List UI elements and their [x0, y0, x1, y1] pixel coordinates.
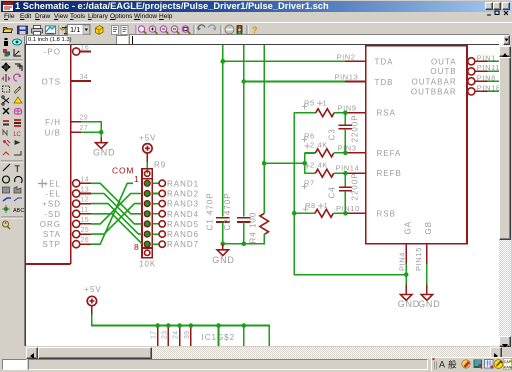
pin TDB — [345, 78, 393, 87]
svg-text:TDB: TDB — [375, 78, 394, 87]
vertical scrollbar — [499, 45, 511, 347]
pin name OTS — [42, 78, 61, 87]
canvas — [25, 44, 499, 346]
svg-text:STP: STP — [42, 240, 61, 249]
svg-text:RAND1: RAND1 — [167, 179, 199, 188]
svg-text:23: 23 — [161, 331, 168, 339]
title text — [15, 1, 329, 11]
svg-text:14: 14 — [81, 176, 89, 183]
wire GB to GND — [426, 264, 428, 285]
svg-text:R9: R9 — [154, 161, 166, 170]
bus / net — [3, 198, 11, 201]
capacitor C4 — [328, 172, 360, 213]
pin F/H (29) — [71, 121, 81, 123]
pin OTS (34) — [71, 80, 91, 82]
svg-text:A: A — [439, 360, 445, 370]
pin IC1G$2 23 — [161, 323, 170, 346]
R9 pad 7 — [144, 241, 150, 247]
pin GA — [404, 221, 413, 264]
wire pad7 to RAND7 stub — [152, 241, 165, 247]
svg-text:25: 25 — [81, 227, 89, 234]
CAM icon — [46, 26, 56, 34]
junction B-TDB — [242, 79, 247, 84]
separator — [194, 25, 195, 35]
pin number 29 — [80, 115, 88, 122]
svg-text:27: 27 — [80, 125, 88, 132]
svg-text:RAND4: RAND4 — [167, 210, 199, 219]
wire PIN8 — [477, 73, 499, 82]
display / mark — [3, 49, 10, 57]
name / value — [3, 130, 7, 135]
svg-text:RAND3: RAND3 — [167, 200, 199, 209]
wire +5V to R9 COM — [146, 162, 148, 173]
supply +5V (bottom) — [84, 285, 101, 314]
svg-text:1C: 1C — [13, 132, 21, 138]
horizontal scrollbar — [26, 347, 502, 359]
ground GND2 — [212, 244, 234, 265]
svg-text:RAND5: RAND5 — [167, 220, 199, 229]
app icon — [3, 2, 13, 11]
wire +SD to R9 pad6 — [91, 204, 142, 235]
junction REFA node — [343, 151, 348, 156]
net label RAND2 — [167, 190, 199, 199]
move / copy — [2, 63, 10, 71]
svg-text:34: 34 — [80, 74, 88, 81]
wire pad5 to RAND5 stub — [152, 221, 165, 227]
pin REFB — [345, 169, 401, 178]
svg-text:ABC: ABC — [13, 208, 24, 214]
net label RAND4 — [167, 210, 199, 219]
wire gnd bus — [223, 222, 264, 244]
svg-text:PIN1: PIN1 — [477, 53, 496, 62]
junction R8 left — [292, 211, 297, 216]
svg-text:-SD: -SD — [44, 210, 61, 219]
net label RAND6 — [167, 230, 199, 239]
junction gnd bus C2 — [242, 242, 247, 247]
svg-text:+5V: +5V — [139, 134, 156, 143]
svg-text:PIN4: PIN4 — [397, 252, 406, 271]
net label PIN3 — [338, 144, 357, 153]
svg-text:1: 1 — [134, 174, 140, 184]
toolbar — [0, 22, 512, 36]
svg-text:F/H: F/H — [45, 118, 61, 127]
pin OUTA (PIN1) — [431, 57, 488, 66]
gateswap icons — [112, 26, 119, 35]
net label RAND7 — [167, 240, 199, 249]
junction RSB node — [343, 211, 348, 216]
capacitor C3 — [328, 113, 360, 153]
svg-text:RAND7: RAND7 — [167, 240, 199, 249]
resistor network R9 body — [142, 169, 152, 258]
pin +SD (12) — [42, 197, 91, 209]
R9 pad 4 — [144, 211, 150, 217]
svg-text:RAND2: RAND2 — [167, 190, 199, 199]
pin name U/B — [45, 129, 61, 138]
net label COM origin cross — [38, 179, 46, 187]
wire PIN1 — [477, 53, 499, 62]
wire -SD to R9 pad7 — [91, 214, 142, 244]
svg-text:ORG: ORG — [40, 220, 61, 229]
wire net A vertical — [222, 45, 224, 217]
R9 pad 2 — [144, 191, 150, 197]
wire TDB horizontal — [244, 81, 345, 83]
net label RAND3 — [167, 200, 199, 209]
pin name F/H — [45, 118, 61, 127]
separator — [1, 217, 23, 218]
split / invoke — [3, 152, 9, 155]
svg-text:-PO: -PO — [44, 48, 61, 57]
wire TDA horizontal — [223, 60, 345, 62]
R9 pad 6 — [144, 231, 150, 237]
IC1 left device body right edge — [26, 45, 71, 264]
junction C feed — [262, 161, 267, 166]
R9 value 10K — [139, 260, 156, 269]
pin RSA — [345, 109, 396, 118]
svg-text:-EL: -EL — [46, 190, 61, 199]
junction GA-PIN4 — [404, 272, 409, 277]
svg-text:39: 39 — [184, 331, 191, 339]
svg-text:T: T — [15, 164, 21, 174]
svg-text:11: 11 — [81, 207, 89, 214]
wire net B vertical — [243, 45, 245, 217]
junction gnd bus C1 — [221, 242, 226, 247]
separator — [59, 25, 60, 35]
svg-text:PIN2: PIN2 — [337, 52, 356, 61]
svg-text:PIN3: PIN3 — [338, 144, 357, 153]
svg-text:RSB: RSB — [377, 209, 396, 218]
save icon — [18, 26, 28, 34]
svg-text:PIN13: PIN13 — [335, 72, 359, 81]
wire net C vertical — [263, 45, 265, 214]
svg-text:U/B: U/B — [45, 129, 61, 138]
traffic light — [237, 25, 243, 35]
svg-text:24: 24 — [173, 331, 180, 339]
svg-text:26: 26 — [81, 237, 89, 244]
svg-text:GND: GND — [418, 299, 440, 309]
window buttons — [485, 2, 493, 10]
command combo — [129, 34, 510, 46]
svg-text:PIN11: PIN11 — [477, 63, 499, 72]
print icon — [32, 26, 43, 36]
coords box — [26, 35, 69, 46]
use/library icon — [61, 26, 72, 35]
R9 pad 5 — [144, 221, 150, 227]
pin IC1G$2 24 — [173, 323, 182, 346]
svg-text:PIN8: PIN8 — [477, 73, 496, 82]
capacitor C2 — [223, 192, 250, 230]
pin TDA — [345, 57, 393, 66]
wire ORG to R9 pad2 — [91, 194, 142, 224]
wire C to REF feed — [264, 162, 305, 164]
net label PIN15 — [414, 247, 423, 271]
smash / miter — [3, 140, 10, 146]
zoom icons x5 — [138, 26, 146, 34]
status bar — [0, 359, 512, 372]
stop sign (disabled) — [225, 25, 234, 34]
wire +EL to R9 pad4 — [91, 183, 142, 214]
group / change — [3, 86, 10, 92]
wire pad6 to RAND6 stub — [152, 231, 165, 237]
wire V1 R5-R8 — [294, 113, 406, 275]
net label PIN10 — [336, 204, 360, 213]
resistor R7 — [302, 160, 346, 189]
svg-text:GA: GA — [404, 221, 413, 235]
wire down to GND1 — [100, 132, 102, 142]
wire pad2 to RAND2 stub — [152, 190, 165, 196]
svg-text:GND: GND — [93, 147, 115, 157]
separator — [1, 60, 23, 61]
pin -SD (11) — [44, 207, 91, 219]
svg-text:般: 般 — [448, 360, 457, 370]
net label RAND5 — [167, 220, 199, 229]
R9 COM pad — [145, 171, 150, 176]
pin number 34 — [80, 74, 88, 81]
net label PIN14 — [336, 163, 360, 172]
wire pad1 to RAND1 stub — [152, 180, 165, 186]
svg-text:2200P: 2200P — [351, 114, 360, 142]
pin name -PO — [44, 48, 61, 57]
supply +5V (top, at R9) — [139, 134, 156, 163]
svg-text:C2 470P: C2 470P — [223, 192, 232, 230]
junction RSA node — [343, 110, 348, 115]
svg-text:OUTBBAR: OUTBBAR — [411, 87, 457, 96]
command row — [0, 35, 512, 45]
ground GND4 — [418, 285, 440, 310]
capacitor C1 — [206, 192, 230, 230]
svg-text:STA: STA — [43, 230, 61, 239]
svg-text:KANA: KANA — [504, 366, 512, 370]
resistor R5 — [294, 99, 345, 117]
rect / polygon — [3, 187, 10, 193]
net label PIN2 — [337, 52, 356, 61]
svg-text:1: 1 — [323, 99, 328, 108]
svg-text:GND: GND — [398, 299, 420, 309]
junction F/H-U/B — [99, 130, 104, 135]
svg-text:29: 29 — [80, 115, 88, 122]
svg-text:17: 17 — [151, 331, 158, 339]
IC2 body — [366, 46, 467, 244]
pin STA (25) — [43, 227, 91, 239]
wire +5V bottom bus — [92, 314, 269, 346]
R9 label — [154, 161, 166, 170]
svg-text:+5V: +5V — [84, 285, 101, 294]
sheet combo 1/1 — [68, 25, 91, 36]
junction A-TDA — [221, 59, 226, 64]
svg-text:13: 13 — [81, 187, 89, 194]
svg-text:PIN15: PIN15 — [414, 247, 423, 271]
left tool palette — [0, 36, 25, 346]
pin REFA — [345, 149, 401, 158]
wire U/B to junction — [81, 131, 101, 133]
net label PIN9 — [338, 104, 357, 113]
label pin 8 — [134, 242, 140, 252]
pin -PO (16) — [73, 48, 91, 55]
open folder icon — [3, 28, 13, 33]
svg-text:C3: C3 — [328, 128, 337, 140]
label pin 1 — [134, 174, 140, 184]
svg-text:+EL: +EL — [44, 179, 61, 188]
pin IC1G$2 39 — [184, 323, 193, 346]
use library icon — [96, 26, 104, 35]
wire PIN18 — [477, 83, 501, 92]
cut / paste — [2, 96, 9, 105]
wire STA to R9 pad3 — [91, 204, 142, 235]
mirror / rotate — [2, 74, 11, 82]
resistor R4 — [249, 212, 269, 244]
junction feed-V2 — [302, 161, 307, 166]
svg-text:REFA: REFA — [377, 149, 402, 158]
pin -EL (13) — [46, 187, 91, 199]
circle / arc — [3, 176, 10, 183]
svg-text:PIN9: PIN9 — [338, 104, 357, 113]
erc — [3, 221, 11, 229]
separator — [1, 161, 23, 162]
svg-text:2200P: 2200P — [351, 172, 360, 200]
wire pad3 to RAND3 stub — [152, 200, 165, 206]
junction REFB node — [343, 171, 348, 176]
pin number 16 — [81, 45, 89, 52]
part label IC1G$2 — [202, 333, 236, 342]
svg-text:C4: C4 — [328, 186, 337, 198]
svg-text:2.4K: 2.4K — [310, 160, 328, 169]
svg-text:C1 470P: C1 470P — [206, 192, 215, 230]
wire branch 2 down — [242, 323, 247, 346]
svg-text:PIN18: PIN18 — [477, 83, 499, 92]
svg-text:OTS: OTS — [42, 78, 61, 87]
separator — [247, 25, 248, 35]
svg-text:15: 15 — [81, 217, 89, 224]
pin IC1G$2 17 — [151, 323, 160, 346]
svg-text:12: 12 — [81, 197, 89, 204]
pinswap / gateswap — [3, 120, 9, 126]
R9 bottom pad — [145, 250, 150, 255]
net label PIN4 — [397, 252, 406, 271]
label COM — [112, 166, 134, 176]
net label RAND1 — [167, 179, 199, 188]
svg-text:10K: 10K — [139, 260, 156, 269]
resistor R6 — [302, 132, 346, 157]
separator — [136, 25, 137, 35]
wire GA to GND — [405, 264, 407, 285]
wire PIN11 — [477, 63, 500, 72]
undo redo — [197, 25, 205, 31]
svg-text:COM: COM — [112, 166, 134, 176]
info / show — [4, 38, 8, 46]
svg-text:2.4K: 2.4K — [310, 140, 328, 149]
svg-text:1/1: 1/1 — [70, 25, 80, 34]
pin GB — [424, 221, 433, 264]
svg-text:PIN14: PIN14 — [336, 163, 360, 172]
R9 pad 3 — [144, 201, 150, 207]
pin ORG (15) — [40, 217, 91, 229]
svg-text:PIN10: PIN10 — [336, 204, 360, 213]
ground GND1 — [93, 143, 115, 158]
svg-text:OUTA: OUTA — [431, 57, 457, 66]
wire -EL to R9 pad5 — [91, 194, 142, 224]
net label PIN13 — [335, 72, 359, 81]
wire pad4 to RAND4 stub — [152, 211, 165, 217]
svg-text:OUTABAR: OUTABAR — [412, 77, 457, 86]
wire V2 REFA-REFB split — [304, 153, 306, 173]
svg-text:R4 100: R4 100 — [249, 212, 258, 244]
small box — [116, 35, 128, 46]
ground GND3 — [398, 285, 420, 310]
pin RSB — [345, 209, 396, 218]
IME language bar — [431, 357, 512, 371]
pin +EL (14) — [44, 176, 91, 188]
wire / text — [3, 164, 10, 171]
wire F/H to corner — [81, 122, 101, 132]
svg-text:GND: GND — [212, 255, 234, 265]
svg-text:+SD: +SD — [42, 200, 61, 209]
wire branch 1 down — [216, 323, 221, 346]
menu bar — [2, 13, 510, 22]
svg-text:GB: GB — [424, 221, 433, 235]
svg-text:CAPS: CAPS — [504, 360, 512, 364]
svg-text:TDA: TDA — [375, 57, 394, 66]
pin OUTBBAR (PIN18) — [411, 87, 488, 96]
junction / label — [2, 205, 10, 213]
svg-text:1: 1 — [324, 201, 329, 210]
separator — [221, 25, 222, 35]
svg-text:8: 8 — [134, 242, 140, 252]
pin U/B (27) — [71, 131, 81, 133]
wire STP to R9 pad1 — [91, 183, 133, 244]
resistor R8 — [294, 201, 345, 217]
title bar — [1, 1, 511, 12]
svg-text:RAND6: RAND6 — [167, 230, 199, 239]
svg-text:RSA: RSA — [377, 109, 396, 118]
pin OUTABAR (PIN8) — [412, 77, 488, 86]
pin STP (26) — [42, 237, 91, 249]
svg-text:16: 16 — [81, 45, 89, 52]
svg-text:OUTB: OUTB — [430, 67, 456, 76]
pin number 27 — [80, 125, 88, 132]
delete / add — [3, 108, 9, 114]
svg-text:REFB: REFB — [377, 169, 402, 178]
pin OUTB (PIN11) — [430, 67, 487, 76]
R9 pad 1 — [144, 180, 150, 186]
